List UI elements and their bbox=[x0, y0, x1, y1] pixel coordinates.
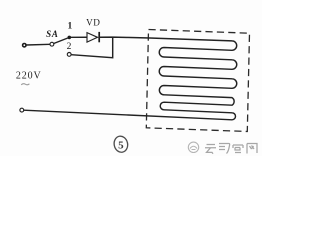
switch SA pivot bbox=[50, 42, 54, 46]
diode VD triangle bbox=[87, 33, 98, 43]
watermark text wang bbox=[247, 144, 257, 154]
wire heater return to bottom terminal bbox=[24, 110, 200, 118]
diode VD cathode bar bbox=[98, 32, 100, 42]
heating element EH serpentine coil bbox=[159, 38, 236, 119]
wire diode cathode to heater (node after bypass junction) bbox=[99, 37, 160, 38]
contact 2 terminal bbox=[67, 53, 71, 57]
terminal top-left bbox=[23, 44, 26, 47]
watermark logo bbox=[188, 142, 198, 152]
svg-text:220V: 220V bbox=[16, 70, 42, 81]
watermark text yun bbox=[205, 145, 216, 154]
switch SA blade bbox=[54, 38, 68, 44]
watermark text xi bbox=[219, 144, 230, 154]
svg-text:2: 2 bbox=[67, 42, 72, 52]
watermark text guan bbox=[233, 145, 243, 153]
contact 1 dot bbox=[68, 36, 72, 40]
terminal bottom-left bbox=[20, 108, 24, 112]
wire node2 to bypass corner bbox=[71, 37, 113, 58]
svg-text:1: 1 bbox=[68, 22, 73, 32]
figure number circled 5 bbox=[113, 135, 129, 154]
svg-text:SA: SA bbox=[46, 29, 59, 39]
AC tilde symbol bbox=[21, 84, 29, 85]
svg-text:5: 5 bbox=[118, 139, 124, 151]
wire contact1 to diode bbox=[71, 36, 87, 38]
svg-text:VD: VD bbox=[86, 18, 100, 28]
wire terminal to switch pivot bbox=[26, 43, 50, 46]
heater dashed enclosure bbox=[146, 30, 249, 132]
